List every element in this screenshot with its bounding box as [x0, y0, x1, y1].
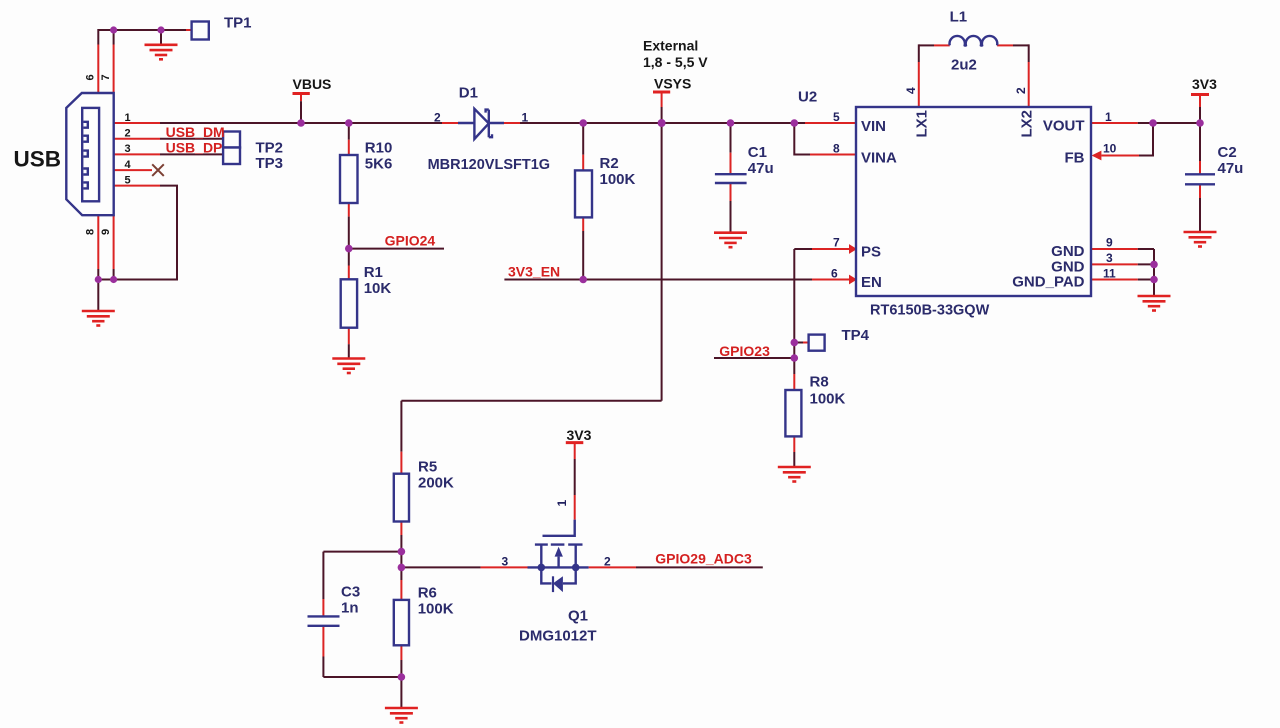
svg-text:PS: PS [861, 244, 881, 261]
svg-text:10: 10 [1103, 142, 1117, 156]
svg-text:1: 1 [125, 112, 131, 124]
svg-text:1: 1 [1105, 110, 1112, 124]
svg-text:GND_PAD: GND_PAD [1012, 274, 1084, 291]
svg-text:VIN: VIN [861, 118, 886, 135]
svg-text:7: 7 [100, 74, 112, 80]
svg-text:VOUT: VOUT [1043, 118, 1085, 135]
svg-text:2: 2 [604, 555, 611, 569]
svg-text:R10: R10 [365, 140, 393, 157]
svg-text:TP1: TP1 [224, 15, 252, 32]
svg-text:LX1: LX1 [914, 110, 931, 138]
svg-text:3V3_EN: 3V3_EN [508, 263, 560, 279]
svg-text:LX2: LX2 [1019, 110, 1036, 138]
svg-text:100K: 100K [600, 171, 636, 188]
svg-text:5: 5 [125, 174, 131, 186]
svg-text:2: 2 [434, 111, 441, 125]
svg-text:7: 7 [833, 236, 840, 250]
svg-text:100K: 100K [810, 391, 846, 408]
svg-text:VBUS: VBUS [293, 76, 332, 92]
svg-text:L1: L1 [950, 8, 968, 25]
svg-text:3: 3 [125, 143, 131, 155]
svg-text:GPIO29_ADC3: GPIO29_ADC3 [655, 551, 752, 567]
svg-text:47u: 47u [1218, 160, 1244, 177]
svg-text:Q1: Q1 [568, 608, 588, 625]
svg-text:USB: USB [14, 147, 62, 172]
svg-text:D1: D1 [459, 84, 478, 101]
svg-text:C2: C2 [1218, 144, 1237, 161]
svg-text:3V3: 3V3 [567, 427, 592, 443]
svg-text:R2: R2 [600, 155, 619, 172]
svg-text:9: 9 [1106, 236, 1113, 250]
svg-text:USB_DM: USB_DM [166, 124, 225, 140]
svg-text:2: 2 [1014, 87, 1028, 94]
svg-text:MBR120VLSFT1G: MBR120VLSFT1G [428, 157, 550, 173]
svg-text:GPIO23: GPIO23 [719, 343, 770, 359]
svg-text:47u: 47u [748, 160, 774, 177]
svg-text:1: 1 [555, 500, 569, 507]
svg-text:200K: 200K [418, 474, 454, 491]
svg-text:11: 11 [1103, 267, 1116, 281]
svg-text:8: 8 [833, 142, 840, 156]
svg-text:6: 6 [85, 74, 97, 80]
svg-text:5: 5 [833, 110, 840, 124]
svg-text:3V3: 3V3 [1192, 76, 1217, 92]
svg-text:U2: U2 [798, 89, 817, 106]
svg-text:R6: R6 [418, 584, 437, 601]
svg-text:100K: 100K [418, 601, 454, 618]
svg-text:USB_DP: USB_DP [166, 139, 223, 155]
svg-text:TP2: TP2 [256, 139, 284, 156]
svg-text:1: 1 [522, 111, 529, 125]
svg-text:R1: R1 [364, 264, 383, 281]
svg-text:VSYS: VSYS [654, 76, 691, 92]
svg-text:10K: 10K [364, 280, 392, 297]
svg-text:2u2: 2u2 [951, 57, 977, 74]
svg-text:C1: C1 [748, 144, 767, 161]
svg-text:1,8 - 5,5 V: 1,8 - 5,5 V [643, 54, 708, 70]
svg-text:3: 3 [502, 555, 509, 569]
svg-text:DMG1012T: DMG1012T [519, 628, 597, 645]
svg-text:C3: C3 [341, 584, 360, 601]
svg-text:9: 9 [100, 229, 112, 235]
svg-text:8: 8 [85, 229, 97, 235]
svg-text:2: 2 [125, 128, 131, 140]
svg-text:TP4: TP4 [842, 327, 870, 344]
svg-text:R5: R5 [418, 458, 437, 475]
svg-text:4: 4 [125, 159, 132, 171]
svg-text:FB: FB [1065, 149, 1085, 166]
svg-text:6: 6 [831, 267, 838, 281]
svg-text:RT6150B-33GQW: RT6150B-33GQW [870, 303, 990, 319]
svg-text:VINA: VINA [861, 149, 897, 166]
svg-text:R8: R8 [810, 374, 829, 391]
svg-text:GPIO24: GPIO24 [385, 232, 436, 248]
svg-text:TP3: TP3 [256, 155, 284, 172]
svg-text:5K6: 5K6 [365, 156, 393, 173]
svg-text:1n: 1n [341, 599, 359, 616]
svg-text:External: External [643, 38, 698, 54]
svg-text:4: 4 [904, 87, 918, 94]
svg-text:3: 3 [1106, 251, 1113, 265]
svg-text:EN: EN [861, 274, 882, 291]
